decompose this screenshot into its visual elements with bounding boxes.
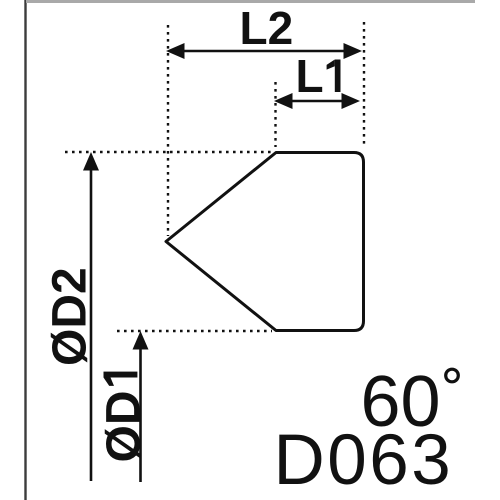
L2 right arrowhead bbox=[344, 43, 363, 59]
countersink body outline bbox=[166, 153, 364, 331]
extension line x=364 (right end of L1/L2) bbox=[363, 22, 365, 147]
svg-text:D063: D063 bbox=[274, 421, 454, 500]
D2 arrowhead (up) bbox=[83, 152, 99, 171]
dimension L1 line bbox=[288, 100, 346, 103]
D1 arrowhead (up) bbox=[133, 331, 149, 350]
digit 1 of L1 (drawn) bbox=[327, 60, 341, 93]
svg-text:ØD2: ØD2 bbox=[44, 267, 97, 366]
extension line y=331 (D1 level) bbox=[117, 330, 272, 332]
extension line y=152 (D2 top) bbox=[65, 151, 272, 153]
degree ring bbox=[446, 369, 459, 382]
extension line x=168 (left end of L2) bbox=[167, 25, 169, 236]
L2 left arrowhead bbox=[166, 43, 185, 59]
dimension D2 vertical line bbox=[90, 168, 93, 481]
left border line bbox=[24, 0, 26, 500]
svg-text:L: L bbox=[296, 50, 324, 102]
dimension D1 vertical line bbox=[139, 347, 142, 482]
svg-text:ØD: ØD bbox=[98, 391, 151, 463]
dimension L2 line bbox=[182, 50, 348, 53]
L1 left arrowhead bbox=[274, 93, 293, 109]
digit 1 of OD1 (drawn, rotated) bbox=[104, 372, 138, 386]
svg-text:L2: L2 bbox=[240, 2, 294, 54]
L1 right arrowhead bbox=[342, 93, 361, 109]
extension line x=275.5 (left end of L1) bbox=[274, 82, 276, 147]
top border line bbox=[26, 0, 475, 3]
